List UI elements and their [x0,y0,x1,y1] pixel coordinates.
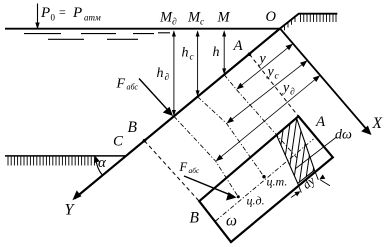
svg-text:ц.д.: ц.д. [247,194,265,208]
svg-text:абс: абс [189,166,200,175]
svg-text:P: P [72,5,82,21]
svg-text:dω: dω [335,128,352,143]
svg-text:h: h [213,45,220,60]
svg-text:=: = [59,5,66,19]
svg-text:M: M [217,10,231,26]
svg-text:абс: абс [127,83,139,92]
svg-text:атм: атм [84,13,101,23]
svg-text:B: B [128,119,138,136]
svg-text:M: M [187,10,201,26]
svg-text:y: y [266,65,275,80]
svg-text:ω: ω [226,213,237,230]
svg-text:y: y [281,81,290,96]
svg-text:0: 0 [51,13,56,23]
svg-text:∂: ∂ [290,88,295,98]
svg-text:h: h [182,46,189,61]
svg-text:A: A [233,38,244,54]
svg-text:∂: ∂ [172,18,177,28]
svg-text:O: O [266,9,277,25]
svg-text:F: F [179,160,188,174]
svg-text:ц.т.: ц.т. [267,175,288,189]
svg-text:P: P [40,5,50,21]
svg-text:F: F [116,77,126,92]
svg-text:B: B [190,210,200,227]
svg-text:α: α [98,155,107,171]
svg-text:X: X [372,115,383,132]
svg-text:∂: ∂ [165,73,170,83]
svg-text:M: M [159,10,173,26]
svg-text:y: y [258,52,267,67]
svg-text:h: h [157,66,164,81]
svg-text:A: A [315,114,326,130]
svg-text:C: C [113,134,124,150]
